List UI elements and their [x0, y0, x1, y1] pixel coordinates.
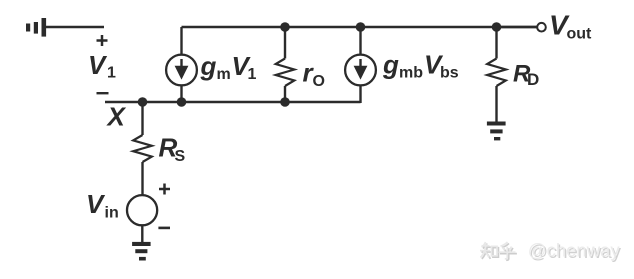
- svg-text:m: m: [217, 66, 231, 83]
- svg-text:bs: bs: [440, 65, 459, 82]
- wire: left ground to V1 plus terminal: [46, 26, 105, 28]
- current source U2 gmbVbs: [345, 55, 376, 86]
- label RS: [159, 133, 186, 166]
- plus sign (V1 top): [97, 35, 108, 46]
- svg-text:@chenway: @chenway: [528, 240, 621, 261]
- svg-text:1: 1: [107, 65, 116, 82]
- label gmV1: [200, 51, 257, 83]
- wire: RD vertical top: [495, 27, 497, 59]
- plus sign (Vin): [159, 184, 170, 195]
- ground (left, rotated): [26, 18, 46, 37]
- label Vout: [549, 10, 592, 43]
- resistor rO: [276, 59, 295, 87]
- wire: top rail: [182, 26, 538, 28]
- wire: RD to ground: [495, 86, 497, 122]
- wire: gmbVbs verticals: [359, 27, 361, 55]
- node A junction dots: [138, 22, 502, 107]
- label rO: [303, 58, 325, 90]
- label V1: [88, 50, 116, 82]
- watermark zhihu @chenway: [480, 240, 622, 262]
- wire: Vout stub: [497, 26, 538, 28]
- svg-text:S: S: [175, 148, 186, 165]
- wire: RS to Vin source: [141, 162, 143, 195]
- wire: Vin to ground: [141, 225, 143, 242]
- svg-text:X: X: [106, 102, 127, 132]
- svg-text:mb: mb: [399, 65, 423, 82]
- wire: bottom rail node X: [105, 101, 361, 103]
- minus sign (V1 bottom): [97, 92, 109, 94]
- wire: rO verticals: [284, 27, 286, 59]
- resistor RD: [487, 59, 506, 87]
- label Vin: [86, 189, 119, 221]
- svg-text:in: in: [105, 204, 119, 221]
- minus sign (Vin): [158, 227, 170, 230]
- wire: RS vertical from node X: [141, 102, 143, 135]
- resistor RS: [133, 135, 152, 162]
- svg-text:D: D: [527, 70, 539, 89]
- svg-text:g: g: [382, 50, 399, 80]
- svg-text:out: out: [567, 26, 593, 43]
- svg-text:1: 1: [248, 66, 257, 83]
- ground (under Vin): [132, 242, 151, 261]
- label RD: [513, 61, 539, 89]
- voltage source Vin: [127, 195, 157, 225]
- current source U1 gmV1: [166, 55, 197, 86]
- label gmbVbs: [382, 50, 459, 82]
- ground (under RD): [487, 122, 506, 141]
- wire: gmV1 source verticals: [180, 27, 182, 56]
- svg-text:V: V: [88, 50, 108, 80]
- svg-text:V: V: [86, 189, 106, 219]
- terminal Vout open circle: [537, 23, 546, 32]
- svg-text:O: O: [313, 73, 325, 90]
- svg-text:g: g: [200, 51, 217, 81]
